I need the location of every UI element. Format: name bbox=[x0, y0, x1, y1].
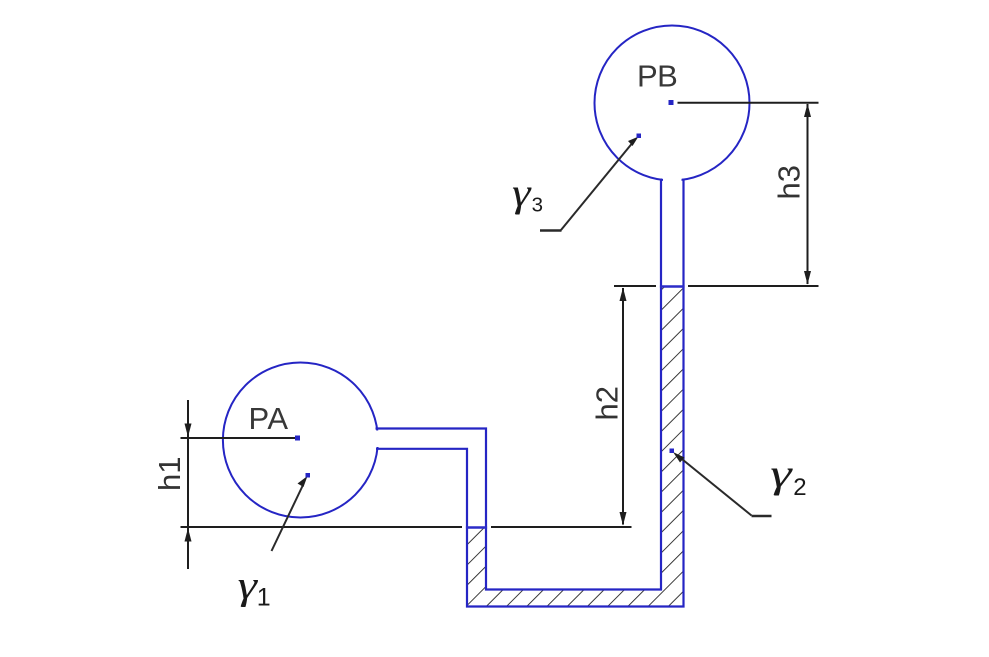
svg-text:h3: h3 bbox=[772, 165, 807, 199]
gap in vessel PA wall where tube connects bbox=[369, 431, 383, 448]
dimension h3 vertical line bbox=[807, 104, 809, 284]
centre line from PB centre to h3 dimension bbox=[678, 102, 819, 104]
svg-text:PA: PA bbox=[249, 401, 289, 436]
reference line at liquid level of right branch (y=286) bbox=[614, 285, 656, 287]
svg-text:3: 3 bbox=[532, 194, 543, 217]
h2 bottom arrow (points down) bbox=[620, 512, 627, 526]
fluid surface line in right tube bbox=[660, 285, 685, 287]
dimension h1 vertical line bbox=[187, 400, 189, 569]
leader of gamma2: tail + line to right tube wall bbox=[752, 515, 772, 517]
svg-text:2: 2 bbox=[793, 474, 806, 501]
fluid surface line in left tube bbox=[466, 526, 487, 528]
h2 top arrow (points up) bbox=[620, 288, 627, 302]
centre line from PA centre to h1 extension bbox=[181, 437, 297, 439]
svg-text:1: 1 bbox=[257, 584, 271, 612]
centre dot of PB bbox=[669, 100, 674, 105]
svg-text:γ: γ bbox=[238, 562, 259, 607]
centre dot of PA bbox=[295, 436, 300, 441]
leader of gamma3: tail + line to point inside PB bbox=[540, 229, 562, 231]
vessel PA (left sphere) bbox=[223, 363, 378, 518]
tube outer wall: PA top wall, down-bend outer, inner bottom, right tube left wall bbox=[376, 179, 662, 590]
svg-text:h1: h1 bbox=[152, 457, 187, 491]
h3 bottom arrow (points down) bbox=[804, 271, 811, 285]
h1 bottom arrow (points up to level line) bbox=[185, 528, 192, 542]
svg-text:h2: h2 bbox=[590, 386, 625, 420]
svg-text:γ: γ bbox=[512, 170, 532, 215]
tube inner wall: PA bottom wall, down-bend inner, outer bottom, right tube right wall bbox=[376, 179, 684, 607]
h1 top arrow (points down to centreline) bbox=[185, 424, 192, 438]
h3 top arrow (points up) bbox=[804, 104, 811, 118]
dimension h2 vertical line bbox=[622, 288, 624, 525]
leader of gamma1: line to point inside PA bbox=[272, 485, 304, 551]
long reference line at liquid level of PA branch (y=527) bbox=[181, 526, 463, 528]
vessel PB (top sphere) bbox=[595, 26, 750, 181]
gap in vessel PB wall where tube connects bbox=[663, 170, 682, 184]
svg-text:γ: γ bbox=[770, 451, 793, 496]
fluid (hatched liquid in U-tube) bbox=[467, 288, 684, 607]
svg-text:PB: PB bbox=[637, 59, 677, 94]
